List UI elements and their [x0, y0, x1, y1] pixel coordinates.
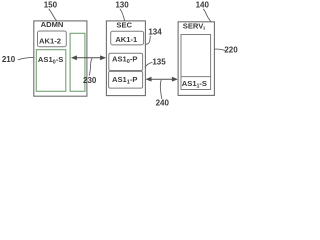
- svg-text:140: 140: [196, 0, 210, 9]
- arrow 230 (double-headed ADMN tall box to SEC): [75, 57, 102, 59]
- green tall box (right side of ADMN): [70, 33, 85, 91]
- box AK1-1: [111, 31, 144, 45]
- svg-text:AK1-2: AK1-2: [39, 37, 61, 46]
- green box AS1_0-S: [36, 50, 66, 92]
- box ADMN: [34, 21, 87, 96]
- svg-text:210: 210: [2, 55, 16, 64]
- svg-text:130: 130: [115, 0, 129, 9]
- svg-text:150: 150: [44, 0, 58, 9]
- svg-text:134: 134: [148, 28, 162, 37]
- svg-text:220: 220: [224, 46, 238, 55]
- box SERV: [178, 22, 214, 96]
- box AK1-2: [38, 31, 67, 47]
- tall inner box of SERV: [181, 35, 211, 90]
- svg-text:135: 135: [152, 58, 166, 67]
- svg-text:ADMN: ADMN: [41, 20, 64, 29]
- box SEC: [106, 21, 145, 96]
- svg-text:240: 240: [156, 98, 170, 107]
- box AS1_1-P: [109, 71, 143, 88]
- svg-text:SEC: SEC: [116, 20, 132, 29]
- arrow 240 (double-headed SEC to SERV): [150, 78, 175, 80]
- svg-text:AK1-1: AK1-1: [115, 35, 138, 44]
- box AS1_0-P: [109, 53, 143, 70]
- divider line of inner SERV compartment: [181, 76, 211, 78]
- svg-text:230: 230: [83, 76, 97, 85]
